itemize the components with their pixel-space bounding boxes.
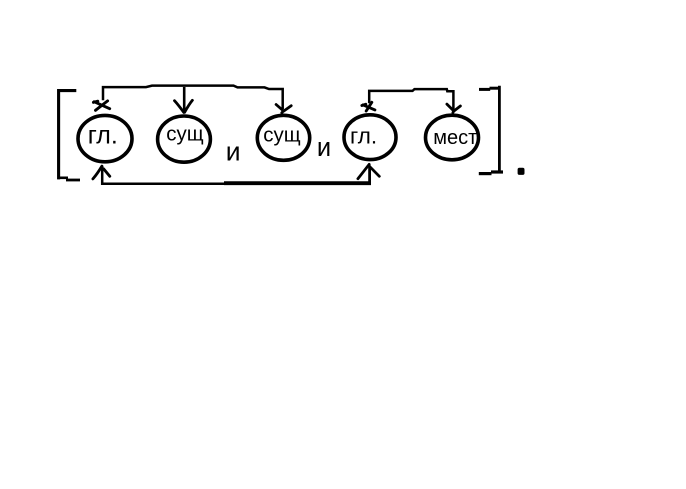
circle 2: сущ bbox=[158, 116, 211, 162]
arrow drop into circle 2 bbox=[183, 87, 186, 113]
up arrowhead into circle 1 bottom bbox=[93, 166, 110, 179]
svg-text:гл.: гл. bbox=[350, 124, 377, 149]
svg-text:и: и bbox=[226, 136, 241, 166]
svg-text:гл.: гл. bbox=[88, 122, 118, 150]
arrowhead on circle 3 bbox=[276, 105, 291, 113]
svg-text:и: и bbox=[317, 134, 331, 162]
bottom connector right vertical bbox=[368, 165, 371, 184]
circle 4: гл. bbox=[344, 115, 396, 160]
circle 5: мест bbox=[426, 115, 479, 160]
left bracket bbox=[58, 91, 81, 180]
circle 1: гл. bbox=[78, 115, 132, 161]
period (full stop after bracket) bbox=[518, 168, 525, 175]
bottom connector thick segment bbox=[224, 181, 371, 185]
right bracket bbox=[479, 86, 503, 174]
up arrowhead into circle 4 bottom bbox=[358, 164, 379, 178]
arrowhead on circle 5 bbox=[447, 104, 461, 113]
svg-text:сущ: сущ bbox=[263, 124, 301, 147]
svg-text:сущ: сущ bbox=[166, 123, 204, 146]
top connector arc from circle 4 to circle 5 bbox=[369, 89, 453, 110]
x mark on top of circle 4 bbox=[362, 102, 375, 111]
bottom connector line from circle 1 to circle 4 bbox=[102, 166, 224, 184]
x mark on top of circle 1 bbox=[93, 101, 109, 110]
arrowhead on circle 2 bbox=[175, 100, 193, 112]
circle 3: сущ bbox=[257, 115, 309, 160]
svg-text:мест: мест bbox=[433, 127, 477, 149]
top connector arc from circle 1 over circles 2 and 3 bbox=[103, 86, 283, 109]
